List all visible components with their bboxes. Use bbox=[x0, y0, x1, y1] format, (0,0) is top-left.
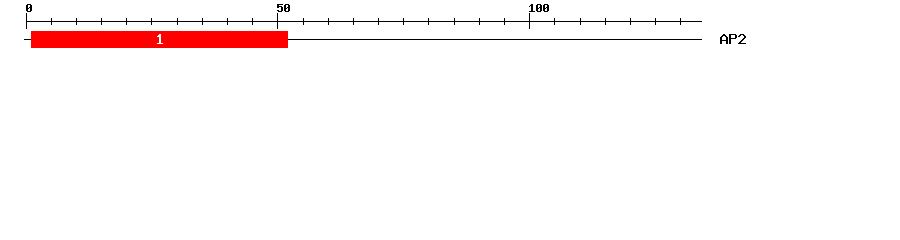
domain 1 bar (residues 1-52, red) bbox=[31, 31, 288, 48]
domain number label 1 (white) bbox=[157, 34, 163, 44]
major tick 100 (x=529) bbox=[529, 13, 530, 29]
ruler baseline (scale line) bbox=[26, 21, 702, 22]
ruler label 100 bbox=[529, 4, 549, 12]
ruler label 50 bbox=[277, 4, 290, 12]
major tick 50 (x=277) bbox=[277, 13, 278, 29]
protein domain ruler diagram bbox=[0, 0, 900, 58]
minor ticks every 5 residues bbox=[51, 18, 681, 25]
sequence name label AP2 bbox=[720, 34, 746, 44]
major tick 0 (x=26) bbox=[26, 13, 27, 29]
protein backbone line (residues 0-134) bbox=[24, 39, 702, 40]
ruler label 0 bbox=[26, 4, 32, 12]
